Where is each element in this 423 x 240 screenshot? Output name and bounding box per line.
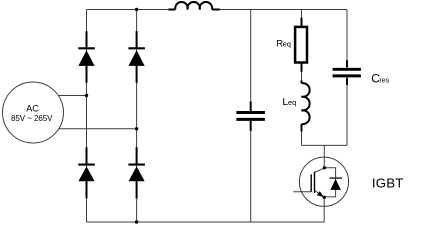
svg-text:eq: eq [283, 40, 291, 49]
wire bottom rail [87, 221, 325, 223]
diode D4 (bridge bottom-right) [128, 147, 145, 198]
wire below Leq coil [301, 131, 303, 145]
wire Cres branch upper [346, 10, 348, 68]
inductor Leq [302, 81, 310, 132]
resistor Req [295, 18, 307, 72]
diode D2 (bridge top-right) [128, 31, 145, 83]
wire IGBT emitter drop [323, 197, 325, 222]
junction dot IGBT collector [323, 166, 326, 169]
wire left bridge leg [86, 10, 88, 223]
svg-text:AC: AC [26, 103, 39, 113]
IGBT gate bar [310, 174, 312, 192]
IGBT body bar [314, 172, 316, 193]
wire Cres branch lower [346, 78, 348, 146]
svg-text:eq: eq [288, 98, 296, 107]
AC source V1 circle [3, 82, 64, 143]
junction dot IGBT emitter [323, 196, 326, 199]
capacitor C1 (DC bus, middle) [236, 102, 265, 131]
svg-text:IGBT: IGBT [372, 176, 404, 191]
IGBT Q1 circle [299, 157, 348, 206]
IGBT freewheel diode loop wire [324, 168, 335, 197]
wire Req-Leq branch top [301, 10, 303, 19]
wire between resistor and Leq coil [301, 71, 303, 84]
diode D1 (bridge top-left) [78, 31, 95, 83]
junction dot AC bottom to right leg [135, 127, 138, 130]
junction dot bottom bridge [135, 220, 138, 223]
wire right bridge leg [136, 10, 138, 223]
wire IGBT collector drop [323, 145, 325, 167]
inductor L1 (top boost inductor) [168, 2, 220, 9]
wire AC top lead [58, 95, 87, 97]
wire Leq to Cres bottom rail [302, 144, 348, 146]
svg-text:85V ~ 265V: 85V ~ 265V [11, 114, 53, 123]
capacitor Cres [333, 60, 361, 85]
IGBT emitter arrowhead [317, 191, 324, 197]
IGBT gate lead [293, 191, 311, 193]
IGBT collector diagonal [315, 168, 325, 173]
junction dot AC top to left leg [85, 94, 88, 97]
wire middle capacitor branch upper [250, 10, 252, 111]
wire top-right segment [220, 9, 347, 11]
IGBT freewheel diode triangle [330, 179, 341, 190]
junction dot top bridge [135, 8, 138, 11]
wire top-left segment [87, 9, 169, 11]
wire AC bottom lead [58, 128, 137, 130]
IGBT emitter diagonal [315, 190, 325, 197]
diode D3 (bridge bottom-left) [78, 147, 95, 198]
IGBT freewheel diode cathode bar [330, 177, 342, 179]
wire middle capacitor branch lower [250, 121, 252, 222]
svg-text:res: res [379, 78, 389, 85]
